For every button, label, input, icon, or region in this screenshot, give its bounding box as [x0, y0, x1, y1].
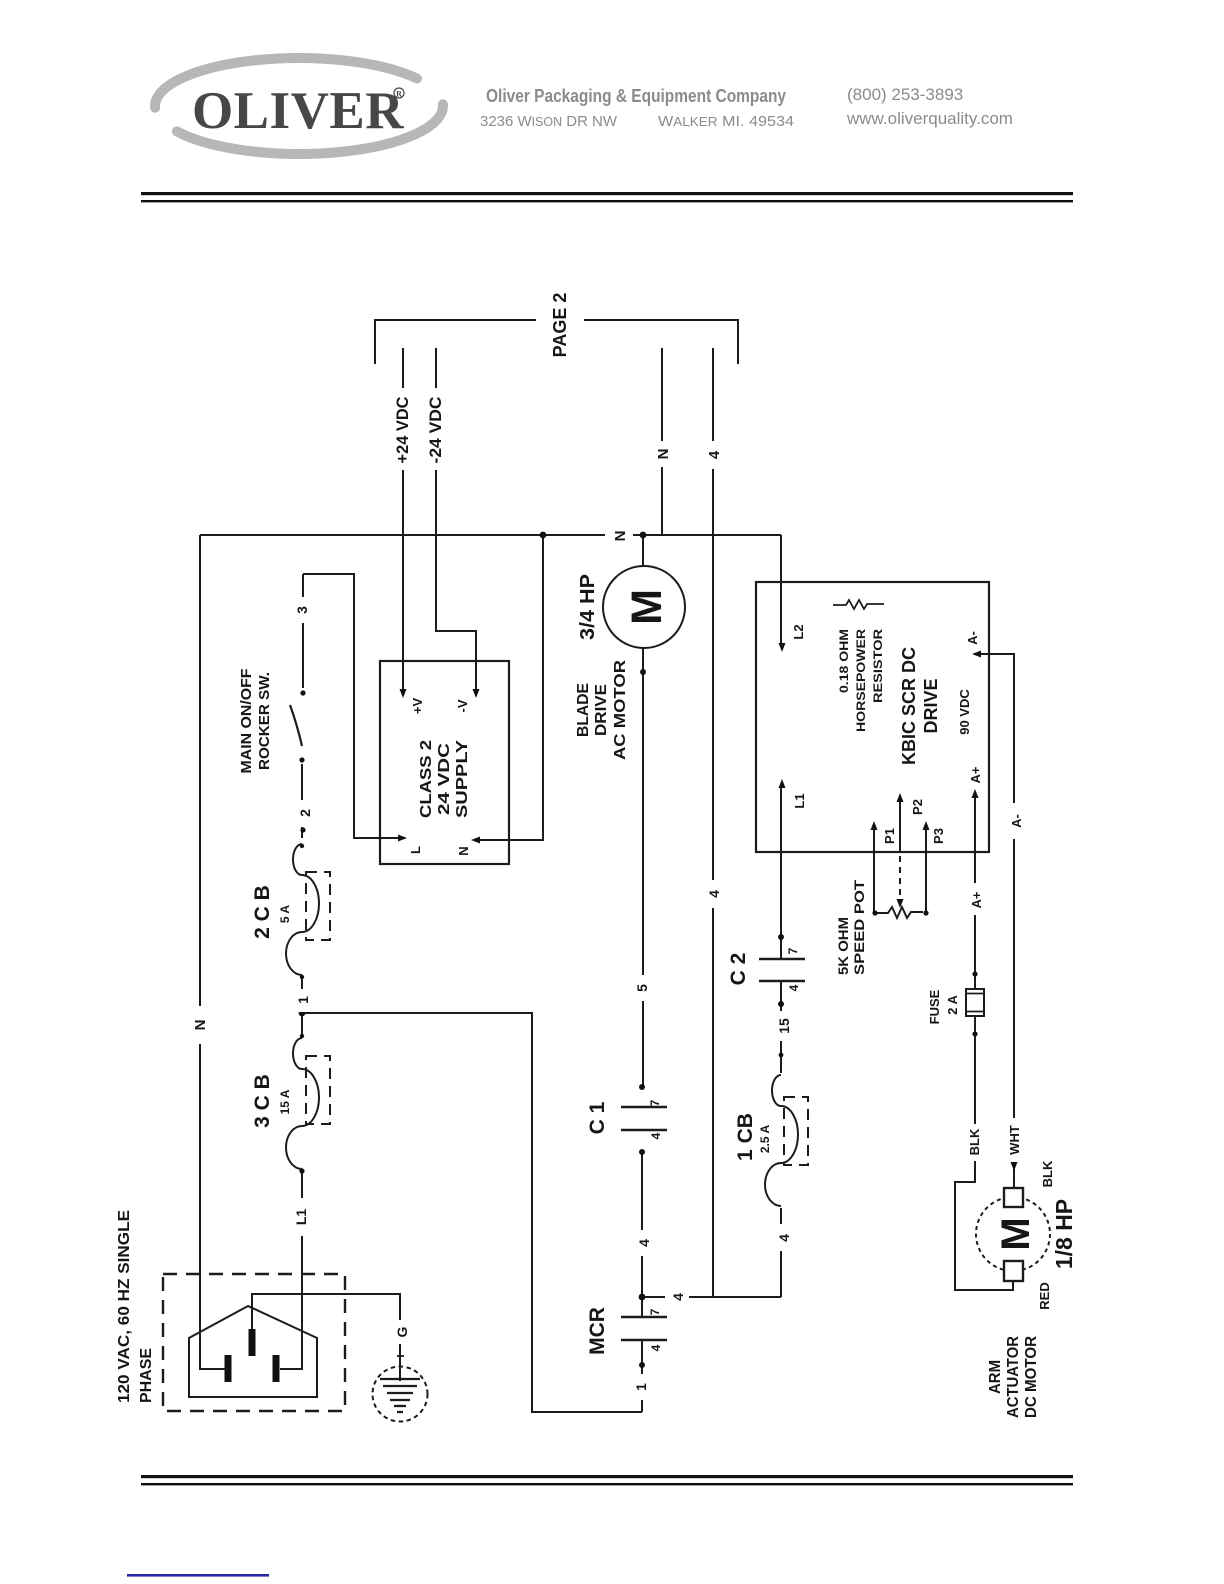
svg-text:2: 2	[297, 809, 313, 817]
svg-text:5: 5	[634, 984, 650, 992]
plug prong center	[249, 1329, 256, 1356]
svg-text:SPEED POT: SPEED POT	[851, 879, 867, 975]
fuse caps	[966, 994, 984, 1012]
wire ground jumper	[252, 1294, 400, 1381]
arrow P3 up	[923, 821, 930, 830]
svg-text:4: 4	[649, 1132, 663, 1139]
svg-text:L2: L2	[791, 624, 806, 639]
svg-text:1: 1	[295, 996, 311, 1004]
supply arrow +V down	[400, 689, 407, 698]
plug neutral jumper	[222, 1368, 225, 1370]
supply arrow L right	[398, 835, 407, 842]
wire +24VDC	[402, 348, 404, 696]
terminal pot end P3	[923, 910, 928, 915]
wire L stub into supply	[380, 837, 403, 839]
svg-text:15 A: 15 A	[278, 1089, 292, 1114]
svg-text:DC MOTOR: DC MOTOR	[1023, 1336, 1040, 1418]
svg-text:BLK: BLK	[967, 1128, 982, 1155]
svg-text:N: N	[655, 449, 672, 460]
dashed box 2CB	[306, 872, 330, 940]
wire 1CB to C2	[780, 980, 782, 1073]
terminal 1CB top	[779, 1053, 784, 1058]
svg-text:2 A: 2 A	[945, 995, 960, 1015]
svg-text:OLIVER: OLIVER	[192, 82, 404, 140]
svg-text:RESISTOR: RESISTOR	[871, 629, 885, 703]
svg-text:7: 7	[648, 1099, 662, 1106]
terminal 2CB top	[300, 827, 305, 832]
svg-text:1 CB: 1 CB	[734, 1113, 757, 1161]
wire 3CB to plug L1	[280, 1171, 302, 1369]
svg-text:A+: A+	[969, 891, 984, 908]
terminal C2 pin 7	[778, 934, 784, 940]
svg-text:N: N	[456, 846, 471, 855]
svg-text:-24 VDC: -24 VDC	[426, 397, 445, 464]
svg-text:1/8 HP: 1/8 HP	[1051, 1199, 1077, 1269]
logo registered mark	[394, 88, 404, 98]
svg-text:P1: P1	[882, 828, 897, 844]
svg-text:L1: L1	[792, 793, 807, 808]
svg-text:M: M	[994, 1217, 1038, 1250]
plug prong left	[225, 1355, 232, 1382]
svg-text:4: 4	[706, 450, 723, 459]
ROTATED LABELS	[116, 293, 1077, 1418]
wire N left drop to plug	[200, 535, 222, 1369]
dashed box plug 120VAC	[163, 1274, 345, 1411]
svg-text:WHT: WHT	[1007, 1125, 1022, 1155]
ground bars	[380, 1379, 420, 1412]
plug outline	[189, 1306, 317, 1397]
KBIC P3 lead	[925, 826, 927, 913]
wire rocker branch upper	[302, 574, 304, 688]
svg-text:FUSE: FUSE	[927, 989, 942, 1024]
SCHEMATIC WIRES	[200, 320, 1014, 1412]
svg-text:5K OHM: 5K OHM	[835, 917, 851, 975]
svg-text:www.oliverquality.com: www.oliverquality.com	[846, 109, 1013, 128]
wire N bus horizontal	[200, 534, 781, 536]
svg-text:2 C B: 2 C B	[251, 885, 274, 939]
terminal MCR pin 4	[639, 1362, 645, 1368]
terminal fuse bottom	[972, 1031, 977, 1036]
arrow L1 up	[779, 779, 786, 788]
KBIC P1 lead	[873, 826, 875, 913]
MCR plates	[621, 1317, 667, 1340]
arrow P2 up	[897, 793, 904, 802]
svg-text:(800) 253-3893: (800) 253-3893	[847, 85, 963, 104]
svg-text:L: L	[408, 846, 423, 854]
wire C1 to MCR junction	[641, 1152, 643, 1317]
switch contact 2	[299, 757, 304, 762]
svg-text:L1: L1	[293, 1209, 309, 1226]
logo swoosh bottom arc	[177, 104, 443, 154]
LABEL GAPS (white)	[189, 388, 1025, 1400]
arrow WHT lead down	[1011, 1162, 1018, 1171]
motor dashed circle 1/8 HP	[976, 1197, 1050, 1271]
wire junction 1 to MCR loop	[302, 1013, 642, 1412]
svg-text:3236 WISON DR NW: 3236 WISON DR NW	[480, 113, 618, 130]
page-2 bracket	[375, 320, 738, 364]
svg-text:R: R	[396, 90, 402, 99]
svg-text:3/4 HP: 3/4 HP	[577, 574, 599, 640]
svg-text:Oliver Packaging & Equipment C: Oliver Packaging & Equipment Company	[486, 86, 786, 106]
wire switch to 2CB	[301, 764, 303, 838]
wire N stub into supply	[475, 839, 509, 841]
wire N supply branch	[509, 535, 543, 840]
arrow A+ up	[972, 789, 979, 798]
svg-text:-V: -V	[455, 699, 470, 712]
svg-text:4: 4	[636, 1239, 652, 1247]
svg-text:5 A: 5 A	[278, 905, 292, 924]
svg-text:A-: A-	[1009, 814, 1024, 828]
svg-text:WALKER MI. 49534: WALKER MI. 49534	[658, 113, 794, 130]
C2 plates	[759, 959, 805, 981]
plug prong right	[273, 1355, 280, 1382]
wire L2 drop	[780, 535, 782, 647]
arrow P1 up	[871, 821, 878, 830]
breaker 3CB coil	[286, 1038, 319, 1169]
wire -24VDC	[436, 348, 476, 696]
svg-text:1: 1	[633, 1383, 649, 1391]
junction N bus / AC motor	[640, 532, 647, 539]
svg-text:M: M	[623, 589, 671, 625]
terminal AC motor lower	[640, 669, 646, 675]
junction N bus / supply branch	[540, 532, 547, 539]
brush top	[1004, 1188, 1023, 1207]
tick 2CB coil start	[300, 844, 304, 848]
junction node 4 row	[639, 1294, 646, 1301]
class 2 supply box	[380, 661, 509, 864]
svg-text:N: N	[612, 531, 629, 542]
svg-text:C 1: C 1	[586, 1101, 609, 1134]
svg-text:24 VDC: 24 VDC	[436, 742, 453, 815]
plug line jumper	[280, 1368, 302, 1370]
svg-text:4: 4	[776, 1234, 792, 1242]
dashed box 3CB	[306, 1056, 330, 1124]
svg-text:7: 7	[786, 947, 800, 954]
blue footer rule	[127, 1574, 269, 1577]
KBIC A+ lead / fuse wire	[955, 794, 1013, 1290]
fuse body	[966, 989, 984, 1016]
svg-text:PAGE 2: PAGE 2	[550, 293, 570, 358]
terminal fuse top	[972, 971, 977, 976]
svg-text:N: N	[192, 1020, 209, 1031]
CONTACT PLATES	[621, 959, 805, 1340]
svg-text:ARM: ARM	[987, 1360, 1004, 1394]
svg-text:BLADE: BLADE	[575, 683, 592, 737]
svg-text:7: 7	[648, 1308, 662, 1315]
wire C2 top to KBIC L1	[780, 786, 782, 959]
svg-text:4: 4	[670, 1293, 686, 1301]
arrow A- left	[972, 651, 981, 658]
wire junction to 3CB	[301, 1013, 303, 1036]
svg-text:3 C B: 3 C B	[251, 1074, 274, 1128]
svg-text:RED: RED	[1037, 1282, 1052, 1309]
motor circle 3/4 HP	[603, 566, 685, 648]
logo swoosh top arc	[155, 58, 417, 108]
wire 1CB column	[780, 1208, 782, 1297]
KBIC drive box	[756, 582, 989, 852]
svg-text:3: 3	[294, 606, 310, 614]
svg-text:A-: A-	[965, 631, 980, 645]
svg-text:MCR: MCR	[586, 1307, 609, 1355]
wire N to page 2	[661, 348, 663, 535]
svg-text:ROCKER SW.: ROCKER SW.	[256, 672, 273, 770]
switch blade	[290, 705, 302, 746]
svg-text:G: G	[394, 1326, 410, 1337]
svg-text:BLK: BLK	[1040, 1160, 1055, 1187]
svg-text:120 VAC, 60 HZ SINGLE: 120 VAC, 60 HZ SINGLE	[116, 1210, 133, 1403]
svg-text:4: 4	[649, 1344, 663, 1351]
svg-text:90 VDC: 90 VDC	[957, 689, 972, 735]
supply arrow N left	[471, 837, 480, 844]
svg-text:4: 4	[706, 890, 722, 898]
wire 2CB to junction 1	[301, 977, 303, 1013]
svg-text:2.5 A: 2.5 A	[758, 1125, 772, 1154]
wire 4 to page 2	[712, 348, 714, 1297]
breaker 2CB coil	[286, 844, 319, 975]
arrow L2 down	[779, 643, 786, 652]
svg-text:ACTUATOR: ACTUATOR	[1005, 1336, 1022, 1418]
wire AC motor to C1	[642, 648, 644, 1087]
svg-text:+24 VDC: +24 VDC	[393, 397, 412, 464]
terminal C1 pin 7	[639, 1084, 645, 1090]
junction node 1	[299, 1010, 306, 1017]
breaker 1CB coil	[765, 1075, 798, 1206]
-V stub	[475, 661, 477, 696]
terminal pot end P1	[872, 910, 877, 915]
terminal 3CB bottom	[299, 1168, 304, 1173]
wire junction row to 1CB	[642, 1296, 781, 1298]
ground circle	[373, 1367, 428, 1422]
switch contact 3	[300, 690, 305, 695]
KBIC P2 wiper dashed	[899, 856, 901, 898]
wire MCR lower lead	[641, 1340, 643, 1412]
svg-text:MAIN ON/OFF: MAIN ON/OFF	[238, 669, 255, 774]
svg-text:A+: A+	[968, 766, 983, 783]
svg-text:0.18 OHM: 0.18 OHM	[837, 629, 851, 693]
KBIC A- lead	[974, 654, 1014, 1188]
svg-text:CLASS 2: CLASS 2	[418, 740, 435, 818]
terminal C1 pin 4	[639, 1149, 645, 1155]
speed pot element	[874, 907, 923, 918]
brush bottom	[1004, 1261, 1023, 1281]
svg-text:PHASE: PHASE	[138, 1348, 155, 1403]
+V stub	[402, 661, 404, 696]
terminal 2CB bottom	[300, 975, 304, 979]
TERMINAL ARROWS	[398, 643, 1018, 1171]
top double rule	[141, 192, 1073, 195]
svg-text:+V: +V	[410, 698, 425, 715]
KBIC P2 lead solid	[899, 798, 901, 853]
C1 plates	[621, 1107, 667, 1130]
dashed box 1CB	[784, 1097, 808, 1165]
svg-text:C 2: C 2	[727, 953, 750, 986]
svg-text:P3: P3	[931, 828, 946, 844]
svg-text:4: 4	[787, 984, 801, 991]
svg-text:DRIVE: DRIVE	[921, 678, 941, 733]
svg-text:AC MOTOR: AC MOTOR	[612, 659, 629, 760]
svg-text:DRIVE: DRIVE	[593, 684, 610, 736]
svg-text:HORSEPOWER: HORSEPOWER	[854, 629, 868, 732]
wire rocker top jumper	[303, 574, 380, 838]
svg-text:P2: P2	[910, 799, 925, 815]
wire AC motor stub top	[642, 535, 644, 566]
svg-text:KBIC SCR DC: KBIC SCR DC	[899, 647, 919, 765]
svg-text:15: 15	[776, 1018, 792, 1034]
ground tick	[397, 1355, 404, 1357]
tick 3CB coil start	[300, 1034, 304, 1038]
horsepower resistor element	[833, 600, 884, 609]
supply arrow -V down	[473, 689, 480, 698]
terminal C2 pin 4	[778, 1001, 784, 1007]
svg-text:SUPPLY: SUPPLY	[454, 740, 471, 818]
bottom double rule	[141, 1475, 1073, 1478]
arrow pot wiper down	[897, 899, 904, 908]
